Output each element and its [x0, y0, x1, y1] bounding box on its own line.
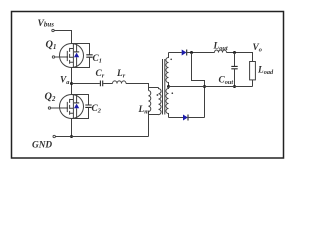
- transformer T1 secondary top winding: [166, 53, 169, 87]
- node center tap: [167, 85, 170, 88]
- wire return rail: [169, 86, 253, 88]
- transistor Q1: [52, 44, 83, 68]
- wire Va to Cr: [72, 83, 100, 85]
- svg-text:GND: GND: [32, 141, 52, 151]
- wire D1 to Lout: [187, 52, 215, 54]
- wire stub primary bottom: [149, 114, 159, 116]
- node D1 cathode junction: [190, 51, 193, 54]
- node Vbus terminal: [52, 29, 54, 31]
- node Lout output: [233, 51, 236, 54]
- resistor Load: [250, 62, 256, 87]
- wire Lm to ground rail: [148, 112, 150, 137]
- wire Lout to load: [227, 53, 253, 62]
- node Cout bottom: [233, 85, 236, 88]
- inductor Lout: [215, 50, 227, 53]
- wire secondary bottom to D2: [169, 117, 184, 119]
- svg-text:Vbus: Vbus: [38, 19, 55, 29]
- wire Cr to Lr: [103, 83, 112, 85]
- capacitor Cout: [231, 53, 237, 87]
- wire D2 to cathode bus: [188, 117, 205, 119]
- wire cathode bus jog: [192, 53, 205, 118]
- transformer T1 secondary bottom winding: [166, 87, 169, 118]
- wire stub primary top: [149, 87, 159, 89]
- polarity dot secondary top: [170, 59, 172, 61]
- inductor Lm: [149, 91, 151, 112]
- transformer core: [163, 59, 165, 115]
- polarity dot secondary bottom: [172, 92, 174, 94]
- transformer T1 primary winding: [159, 88, 162, 115]
- capacitor C1 (snubber across Q1): [72, 44, 93, 68]
- node GND terminal: [53, 135, 55, 137]
- wire Lr to Lm branch: [126, 84, 149, 91]
- node Va: [70, 82, 73, 85]
- node cathode bus on return rail: [203, 85, 206, 88]
- wire secondary top to D1: [169, 52, 182, 54]
- diode D1: [182, 50, 187, 56]
- wire Vbus to Q1 drain: [54, 31, 71, 44]
- body diode of Q1: [74, 44, 79, 68]
- diode D2: [183, 115, 188, 121]
- polarity dot primary: [157, 94, 159, 96]
- capacitor C2 (snubber across Q2): [72, 95, 92, 119]
- wire Q1 source to Q2 drain: [71, 68, 73, 95]
- inductor Lr: [113, 81, 127, 84]
- capacitor Cr: [100, 81, 102, 87]
- body diode of Q2: [74, 95, 79, 119]
- wire Q2 source to GND rail: [71, 119, 73, 137]
- transistor Q2: [48, 95, 83, 119]
- wire GND rail: [55, 136, 148, 138]
- node GND junction: [70, 135, 73, 138]
